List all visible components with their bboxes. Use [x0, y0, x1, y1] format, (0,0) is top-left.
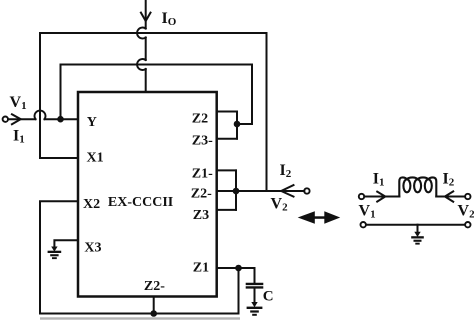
wire net A horizontal top	[40, 32, 267, 34]
capacitor C1 plates	[247, 284, 262, 288]
terminal bottom right right circuit	[465, 222, 470, 227]
wire hop of Io over net B	[137, 59, 146, 70]
svg-text:Y: Y	[87, 115, 97, 130]
svg-text:X2: X2	[83, 197, 100, 212]
ground symbol right circuit	[411, 232, 424, 245]
wire hop of V1 wire over net A vertical	[34, 111, 45, 120]
wire pin Z2- to terminal V2	[217, 190, 305, 192]
terminal V2 port circle	[304, 188, 309, 193]
svg-text:Z2-: Z2-	[191, 187, 212, 202]
artifact grey strip bottom	[40, 317, 240, 319]
arrow Io current direction	[141, 13, 151, 21]
svg-text:Z2-: Z2-	[144, 279, 165, 294]
wire pin Z3- stub	[217, 138, 237, 140]
wire net B left vertical to Y node	[60, 65, 62, 120]
wire Z1 node down to bottom net	[238, 268, 240, 314]
wire net A right vertical to V2 node	[266, 33, 268, 191]
wire Z1- to Z3 connector	[235, 170, 237, 210]
arrow I2 right circuit	[445, 191, 453, 201]
wire capacitor to ground	[254, 289, 256, 304]
junction bottom net dot	[150, 310, 157, 317]
wire pin Z1 stub to capacitor	[217, 268, 255, 283]
wire net B horizontal	[61, 64, 253, 66]
ground symbol at capacitor	[247, 302, 263, 316]
terminal V1 port circle	[3, 117, 8, 122]
svg-text:Z1-: Z1-	[192, 166, 213, 181]
arrow I1 current direction	[12, 114, 21, 124]
wire pin Z2 stub	[217, 111, 237, 113]
svg-text:Z1: Z1	[193, 261, 209, 276]
wire pin Z3 stub	[217, 209, 236, 211]
junction node Z2/Z3- dot	[234, 121, 241, 128]
op-amp U1 EX-CCCII block body	[78, 92, 217, 297]
svg-text:EX-CCCII: EX-CCCII	[108, 195, 173, 210]
svg-text:Z3: Z3	[193, 208, 209, 223]
arrow I2 current direction	[281, 185, 293, 197]
wire ground stem right circuit	[417, 225, 419, 233]
wire pin Z1- stub	[217, 169, 236, 171]
wire net A left vertical to X1	[40, 33, 78, 158]
wire right circuit bottom	[366, 224, 465, 226]
junction node Y dot	[57, 116, 64, 123]
junction node Z1 dot	[235, 265, 242, 272]
ground symbol at X3	[48, 247, 62, 260]
wire pin X3 to ground	[54, 240, 78, 247]
svg-text:X1: X1	[87, 150, 104, 165]
wire net B right vertical to Z2/Z3- node	[237, 65, 252, 125]
terminal bottom left right circuit	[361, 222, 366, 227]
svg-text:Z3-: Z3-	[192, 133, 213, 148]
svg-text:Z2: Z2	[192, 112, 208, 127]
wire right circuit top left	[364, 196, 399, 198]
wire right circuit top right	[436, 196, 465, 198]
arrow I1 right circuit	[377, 192, 385, 202]
svg-text:X3: X3	[84, 241, 101, 256]
wire Io vertical input	[145, 0, 147, 92]
terminal V1 right circuit	[359, 194, 364, 199]
junction node Z1-/Z2-/Z3 dot	[233, 188, 240, 195]
equivalence arrow double headed	[298, 211, 341, 224]
wire bottom net horizontal	[40, 313, 239, 315]
wire V1 input to Y pin	[8, 118, 78, 120]
wire pin X2 to bottom net	[40, 201, 78, 313]
terminal V2 right circuit	[465, 194, 470, 199]
wire pin Z2- bottom stub	[153, 297, 155, 314]
wire hop of Io over net A	[137, 28, 146, 39]
inductor L1 coil	[399, 177, 436, 196]
svg-text:C: C	[263, 288, 274, 304]
wire Z2 to Z3- connector	[236, 112, 238, 139]
